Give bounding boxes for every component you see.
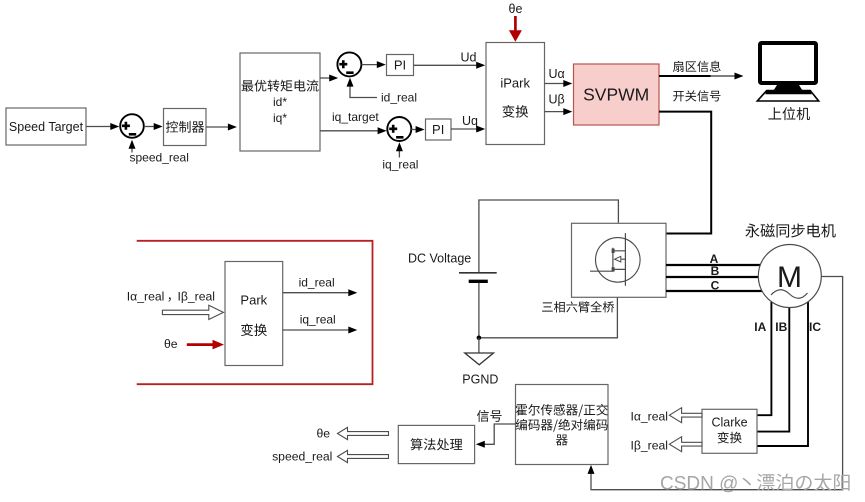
block: optimal torque current 最优转矩电流 id* iq*: [240, 53, 320, 151]
svg-text:iq_target: iq_target: [332, 110, 379, 124]
block: hall sensor / encoder 霍尔传感器: [516, 385, 609, 465]
wire: sum S2 to PI1: [362, 64, 378, 66]
svg-text:θe: θe: [509, 2, 523, 16]
junction dot DC-/PGND: [477, 336, 482, 341]
svg-text:Uα: Uα: [549, 67, 565, 81]
wire: DC- bottom run to bridge: [479, 297, 618, 338]
block: Park transform 变换: [225, 262, 283, 366]
svg-text:id_real: id_real: [299, 275, 335, 289]
svg-text:PI: PI: [394, 58, 406, 73]
hollow arrow: theta_e out: [338, 427, 389, 439]
svg-text:CSDN @: CSDN @: [660, 474, 738, 495]
icon: host PC monitor 上位机: [760, 43, 816, 83]
hollow arrow: speed_real out: [338, 450, 389, 462]
svg-text:PGND: PGND: [462, 373, 498, 387]
red open rectangle (highlight frame): [137, 241, 373, 384]
wire: id_real out of Park: [283, 292, 350, 294]
svg-text:iq_real: iq_real: [382, 158, 418, 172]
battery negative plate: [469, 280, 488, 283]
svg-text:Park: Park: [240, 293, 267, 308]
svg-text:C: C: [711, 279, 720, 293]
ground symbol PGND: [465, 353, 494, 365]
wire: phase B (thick): [666, 276, 762, 278]
svg-text:IB: IB: [775, 320, 787, 334]
wire: PI2 to iPark, label Uq: [451, 128, 477, 130]
svg-text:DC Voltage: DC Voltage: [408, 252, 471, 266]
wire: Speed Target to sum junction: [86, 126, 111, 128]
svg-text:Iα_real: Iα_real: [630, 409, 668, 423]
svg-text:Iβ_real: Iβ_real: [631, 438, 669, 452]
MOSFET circle inside bridge: [596, 238, 641, 283]
block: algorithm processing 算法处理: [398, 425, 474, 463]
block: PI controller 2: [426, 119, 452, 140]
block: SVPWM (pink): [574, 64, 660, 125]
svg-text:Iα_real: Iα_real: [127, 289, 165, 303]
svg-text:IA: IA: [754, 320, 766, 334]
wire: phase A (thick): [666, 264, 762, 266]
wire: id* to sum S2: [320, 77, 330, 79]
wire: IC sense line: [758, 302, 809, 446]
wire: IA sense line: [758, 302, 772, 415]
svg-text:iq*: iq*: [273, 111, 287, 125]
svg-text:id*: id*: [273, 95, 287, 109]
hollow arrow: Ibeta_real out: [669, 437, 702, 452]
wire: sum to controller: [144, 126, 155, 128]
svg-text:θe: θe: [164, 337, 178, 351]
block: iPark transform 变换: [486, 43, 545, 145]
motor circle M: [758, 245, 821, 308]
block: Speed Target box: [6, 108, 86, 145]
svg-text:speed_real: speed_real: [272, 449, 332, 463]
block: controller box 控制器: [164, 109, 207, 146]
wire: phase C (thick): [666, 290, 762, 292]
block: PI controller 1: [387, 55, 414, 76]
wire: Ubeta iPark to SVPWM: [545, 111, 565, 113]
wire: controller to torque-current block: [206, 126, 229, 128]
wire: DC+ from battery to bridge: [479, 200, 619, 272]
wire: iq_real out of Park: [283, 329, 350, 331]
wire: signal 信号 encoder to algorithm: [479, 424, 515, 444]
block: three-phase six-arm bridge 三相六臂全桥: [572, 223, 667, 297]
svg-text:id_real: id_real: [381, 91, 417, 105]
hollow arrow into Park: [162, 305, 223, 319]
wire: stub to PGND: [478, 338, 480, 353]
battery positive plate: [459, 272, 497, 274]
svg-text:Uβ: Uβ: [549, 92, 565, 106]
block: Clarke transform 变换: [702, 409, 757, 453]
svg-text:SVPWM: SVPWM: [583, 85, 649, 105]
svg-text:Clarke: Clarke: [711, 415, 747, 429]
svg-text:Uq: Uq: [462, 114, 478, 128]
wire: sum S3 to PI2: [411, 129, 416, 131]
wire: IB sense line: [758, 306, 790, 432]
wire: switch signals 开关信号: [659, 112, 711, 234]
summing junction S2 (id): [337, 52, 361, 76]
svg-text:speed_real: speed_real: [130, 151, 189, 165]
svg-text:B: B: [711, 264, 720, 278]
wire: speed_real feedback stub: [131, 148, 133, 153]
wire: iq_target to sum S3: [320, 130, 379, 132]
wire: sector info to host PC 扇区信息: [659, 75, 711, 77]
svg-text:M: M: [777, 261, 802, 294]
wire: rotor position from motor to encoder: [591, 277, 843, 490]
summing junction S1 (speed): [120, 114, 144, 138]
wire: DC- down from battery: [478, 283, 480, 338]
label: PMSM 永磁同步电机: [745, 224, 835, 238]
hollow arrow: Ialpha_real out: [669, 408, 702, 423]
svg-text:Ud: Ud: [461, 51, 477, 65]
summing junction S3 (iq): [387, 117, 411, 141]
svg-text:iPark: iPark: [500, 76, 530, 91]
red arrow: theta_e into Park: [187, 343, 213, 346]
svg-text:θe: θe: [316, 426, 330, 440]
svg-text:iq_real: iq_real: [300, 312, 336, 326]
wire: PI1 to iPark, label Ud: [414, 64, 478, 66]
wire: Ualpha iPark to SVPWM: [545, 83, 565, 85]
svg-text:PI: PI: [432, 122, 444, 137]
wire: id_real feedback: [350, 81, 377, 98]
svg-text:Speed Target: Speed Target: [9, 120, 84, 134]
wire: iq_real feedback stub: [398, 150, 400, 157]
red arrow: theta_e into iPark: [514, 16, 517, 31]
svg-text:Iβ_real: Iβ_real: [178, 289, 216, 303]
svg-text:IC: IC: [809, 320, 821, 334]
